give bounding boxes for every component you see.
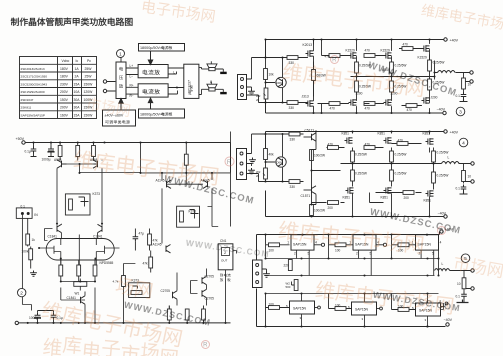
module SAP15N t3 xyxy=(412,234,442,256)
svg-text:R+: R+ xyxy=(130,84,134,88)
resistor 0.25/5W f xyxy=(428,77,445,96)
watermark lower-left xyxy=(41,300,183,348)
connector CN5 xyxy=(253,260,263,288)
svg-text:0.25/5W: 0.25/5W xyxy=(359,85,371,89)
resistor 4.7k column xyxy=(113,264,136,324)
svg-text:L+: L+ xyxy=(130,64,134,68)
wires bottom 4 xyxy=(312,193,430,217)
svg-text:NPD5565: NPD5565 xyxy=(100,261,114,265)
svg-text:100: 100 xyxy=(398,305,404,309)
svg-text:40k: 40k xyxy=(269,153,275,157)
module SAP15N b2 xyxy=(348,302,377,321)
svg-text:Pc: Pc xyxy=(87,59,91,63)
transistor D668 blk4 xyxy=(276,157,286,167)
terminal out3b xyxy=(470,80,473,83)
svg-text:C2705: C2705 xyxy=(161,289,171,293)
wire top rail +40V xyxy=(266,40,444,59)
resistor 470 blk4 c xyxy=(397,139,408,146)
svg-text:0.25/5W: 0.25/5W xyxy=(437,151,449,155)
resistor 330 lower xyxy=(287,101,298,110)
connector CN3 xyxy=(238,75,247,100)
svg-text:330: 330 xyxy=(290,138,296,142)
watermark fragment top-left xyxy=(142,0,215,23)
svg-text:10: 10 xyxy=(468,175,472,179)
resistor Rs3 xyxy=(93,259,97,282)
wire bottom rail 4 xyxy=(266,191,444,217)
resistor mid rail xyxy=(184,143,188,173)
svg-text:10k: 10k xyxy=(269,73,275,77)
resistor 200 blk4 b xyxy=(403,191,414,200)
svg-text:L: L xyxy=(442,262,444,266)
svg-text:L−: L− xyxy=(130,75,134,79)
box current-amp R 电流放大 xyxy=(138,84,168,97)
wire bottom rail 5 xyxy=(257,289,446,327)
input terminals xyxy=(103,80,106,83)
svg-text:OUT: OUT xyxy=(221,259,228,263)
resistor 47k c xyxy=(143,251,153,273)
box power board bottom xyxy=(139,109,185,118)
svg-text:2SD1047: 2SD1047 xyxy=(21,98,34,102)
svg-text:100/2W: 100/2W xyxy=(314,154,325,158)
wires bottom row outs xyxy=(302,303,444,327)
wires fet columns bottom xyxy=(318,96,430,114)
wire link block2 to upper blocks xyxy=(230,132,232,227)
node circle 1 xyxy=(117,50,125,58)
inductor L3 xyxy=(438,71,456,73)
resistor 470 g4 xyxy=(329,102,340,111)
resistor 100 t2 xyxy=(329,235,354,253)
svg-text:C1841: C1841 xyxy=(67,296,77,300)
ground out4 xyxy=(460,192,468,195)
mosfet K1529 c xyxy=(418,45,430,59)
transistor C2705 b xyxy=(202,275,214,285)
svg-text:200V: 200V xyxy=(60,90,69,94)
wires fet columns top xyxy=(314,40,435,97)
resistor 40k blk4 xyxy=(264,149,274,160)
svg-text:470: 470 xyxy=(330,107,336,111)
resistor 10 out4 xyxy=(462,171,472,182)
resistor 0.25/5W 4a xyxy=(351,151,367,164)
svg-text:C2705: C2705 xyxy=(205,297,215,301)
mosfet J313 xyxy=(302,95,314,107)
terminal -40V xyxy=(443,111,446,114)
svg-text:470: 470 xyxy=(325,55,331,59)
resistor 2k xyxy=(256,88,268,102)
svg-text:160V: 160V xyxy=(60,113,69,117)
resistor 220 xyxy=(284,260,293,271)
resistor 470 blk4 a xyxy=(328,143,339,150)
current source box K373 b xyxy=(177,206,200,227)
svg-text:470: 470 xyxy=(365,143,371,147)
arrow bottom supply xyxy=(148,98,152,109)
terminal +40V xyxy=(444,38,447,41)
terminal out5b xyxy=(471,287,474,290)
terminal out4b xyxy=(471,180,474,183)
resistor e1 xyxy=(167,306,171,323)
svg-text:150V: 150V xyxy=(60,98,69,102)
terminal b2 out xyxy=(377,307,383,310)
resistor 0.25/5W d xyxy=(355,77,371,97)
transistor C2705 c xyxy=(202,289,214,300)
svg-text:4: 4 xyxy=(315,241,317,245)
svg-text:J313: J313 xyxy=(302,95,309,99)
svg-text:200: 200 xyxy=(328,206,334,210)
svg-text:C2705: C2705 xyxy=(205,275,215,279)
resistor RL3 xyxy=(92,143,96,161)
wire bottom rail 2 xyxy=(17,322,231,324)
wires block diagram xyxy=(107,58,202,95)
svg-text:0 1: 0 1 xyxy=(21,204,26,208)
terminal out3a xyxy=(470,71,473,74)
transistor C5171 xyxy=(304,129,317,142)
box protector uPC1237 xyxy=(184,64,199,98)
svg-text:SAP15N: SAP15N xyxy=(293,242,307,246)
resistor 0.25/5W 4b xyxy=(390,151,407,164)
resistor 100 t3 xyxy=(392,235,416,253)
wire output 4 xyxy=(438,164,471,185)
capacitor 0.1u rail xyxy=(25,143,37,157)
speaker L xyxy=(202,61,224,71)
terminal +50V xyxy=(22,141,25,144)
svg-text:1k: 1k xyxy=(32,238,36,242)
watermark lower-right xyxy=(315,280,454,315)
ground out3 xyxy=(460,99,468,102)
watermark upper-right xyxy=(282,61,424,97)
svg-text:A968: A968 xyxy=(54,158,62,162)
svg-text:Ic: Ic xyxy=(76,59,79,63)
svg-text:K1529: K1529 xyxy=(381,49,390,53)
mosfet K851 d xyxy=(343,187,354,199)
watermark fragment top-right xyxy=(421,3,503,30)
resistor 470 g6 xyxy=(406,104,417,112)
svg-text:−40V: −40V xyxy=(438,212,447,216)
resistor 470 g3 xyxy=(402,43,413,51)
inductor L5 xyxy=(435,269,450,271)
resistor 470 blk4 b xyxy=(364,143,375,150)
svg-text:SAP15N: SAP15N xyxy=(293,307,307,311)
terminal out5a xyxy=(471,269,474,272)
title 制作晶体管靓声甲类功放电路图 xyxy=(11,18,133,26)
svg-text:47k: 47k xyxy=(143,262,149,266)
ground speaker L xyxy=(220,72,227,74)
pin2 terminal and ground b3 xyxy=(440,299,469,307)
mosfet K1529 a xyxy=(346,49,357,59)
svg-text:100: 100 xyxy=(335,304,341,308)
wires mid 4 xyxy=(312,132,430,205)
svg-text:K851: K851 xyxy=(424,199,432,203)
resistor RL1 xyxy=(58,143,62,161)
svg-text:K851: K851 xyxy=(378,132,386,136)
svg-text:100: 100 xyxy=(335,248,341,252)
node circle 5 xyxy=(461,254,470,263)
resistor 100k in xyxy=(22,247,33,269)
svg-text:IN: IN xyxy=(34,213,38,217)
wires mid buses 5 xyxy=(266,245,439,303)
capacitor 1000u rail xyxy=(42,143,55,162)
svg-text:L: L xyxy=(448,156,450,160)
svg-text:330: 330 xyxy=(289,61,295,65)
svg-text:470: 470 xyxy=(403,43,409,47)
svg-text:SAP15N: SAP15N xyxy=(418,242,432,246)
transistor C1841 a xyxy=(48,224,62,238)
node circle 2 xyxy=(18,288,26,296)
svg-text:100: 100 xyxy=(269,303,275,307)
svg-text:470: 470 xyxy=(365,49,371,53)
resistor 0.25/5W 4d xyxy=(351,164,367,187)
resistor 10 out xyxy=(462,78,472,89)
table of transistor types xyxy=(20,57,97,119)
wire output xyxy=(435,61,470,101)
resistor 0.25/5W a xyxy=(355,62,371,77)
svg-text:200: 200 xyxy=(404,196,410,200)
svg-text:0.1: 0.1 xyxy=(456,295,461,299)
svg-text:2A: 2A xyxy=(75,75,80,79)
svg-text:1000µ: 1000µ xyxy=(42,158,51,162)
mosfet K851 c xyxy=(423,132,434,145)
svg-text:470: 470 xyxy=(365,107,371,111)
svg-text:K851: K851 xyxy=(343,196,351,200)
capacitor 0.1 out xyxy=(456,92,467,99)
svg-text:2SC5171/2SA1930: 2SC5171/2SA1930 xyxy=(21,75,48,79)
module SAP15N t1 xyxy=(287,234,317,256)
svg-text:470: 470 xyxy=(407,108,413,112)
svg-text:0.25/5W: 0.25/5W xyxy=(395,172,407,176)
arrow classA supply xyxy=(119,99,123,111)
svg-text:2SK2013/2SJ313: 2SK2013/2SJ313 xyxy=(21,67,45,71)
svg-text:C1841: C1841 xyxy=(48,235,58,239)
inductor L4 xyxy=(442,162,460,164)
svg-text:0.25/5W: 0.25/5W xyxy=(395,153,407,157)
module SAP15N t2 xyxy=(349,234,379,256)
ground connector5 xyxy=(262,269,270,277)
svg-text:+40V: +40V xyxy=(450,131,459,135)
svg-text:2: 2 xyxy=(20,291,23,297)
mosfet J200 a xyxy=(349,92,363,106)
transistor A968 b xyxy=(90,158,98,168)
connector CN4 xyxy=(237,149,247,180)
svg-text:±40V~±60V: ±40V~±60V xyxy=(105,114,124,118)
resistor 0.25/5W b xyxy=(390,62,407,77)
svg-text:K2013: K2013 xyxy=(303,43,313,47)
wire c1841 to capsule xyxy=(61,233,97,239)
wires A1145 stage xyxy=(141,143,231,244)
resistor e3 xyxy=(202,306,206,323)
module SAP15N b3 xyxy=(412,303,441,322)
svg-text:30A: 30A xyxy=(74,106,81,110)
terminal out4a xyxy=(471,162,474,165)
svg-text:K373: K373 xyxy=(189,210,197,214)
watermark mid-left xyxy=(73,149,219,186)
svg-text:220: 220 xyxy=(284,264,290,268)
svg-text:C1571: C1571 xyxy=(301,194,311,198)
terminal t2 out xyxy=(376,243,387,246)
svg-text:1: 1 xyxy=(287,241,289,245)
svg-text:D668: D668 xyxy=(277,160,284,164)
watermark fragment left xyxy=(115,276,153,299)
transistor D668 xyxy=(276,77,286,87)
transistor C1841 b xyxy=(93,224,103,238)
current source box K373 c xyxy=(129,279,150,298)
wires mid bus 4 xyxy=(341,163,438,165)
svg-text:10: 10 xyxy=(457,282,461,286)
text to power amp board xyxy=(220,274,231,277)
svg-text:25W: 25W xyxy=(85,67,93,71)
terminal t1 out xyxy=(314,243,325,246)
ground input xyxy=(30,271,37,277)
resistor Rs1 xyxy=(59,259,63,282)
box current-amp L 电流放大 xyxy=(138,65,168,78)
wire bottom rail -40V xyxy=(266,97,443,114)
resistor 100/2W lower xyxy=(310,194,325,216)
potentiometer W2 500 xyxy=(286,280,299,291)
resistor 0.25/5W 4e xyxy=(390,164,407,187)
ground connector4 xyxy=(249,158,256,164)
wires left section 4 xyxy=(247,134,304,182)
module SAP15N b1 xyxy=(286,301,315,320)
svg-text:200V: 200V xyxy=(60,106,69,110)
svg-text:230V: 230V xyxy=(60,82,69,86)
potentiometer W1 xyxy=(61,279,95,296)
resistor 100/2W upper xyxy=(310,133,325,171)
terminal -40V blk4 xyxy=(444,215,447,218)
wires left section xyxy=(247,40,314,114)
wires mirror pair xyxy=(57,160,141,224)
speaker R xyxy=(202,82,224,92)
svg-text:R: R xyxy=(439,229,444,235)
svg-text:SAP15N: SAP15N xyxy=(355,308,369,312)
connector CN1 out xyxy=(218,239,233,270)
svg-text:+40V: +40V xyxy=(450,39,459,43)
svg-text:470: 470 xyxy=(398,139,404,143)
svg-text:L: L xyxy=(173,70,175,74)
svg-text:+50V: +50V xyxy=(16,137,25,141)
svg-text:330: 330 xyxy=(290,185,296,189)
svg-text:100k: 100k xyxy=(22,250,29,254)
svg-text:K373: K373 xyxy=(93,192,101,196)
svg-text:0.1: 0.1 xyxy=(456,187,461,191)
mosfet K851 e xyxy=(381,187,392,199)
svg-text:J200: J200 xyxy=(431,96,438,100)
svg-text:2: 2 xyxy=(356,252,358,256)
svg-text:180V: 180V xyxy=(60,75,69,79)
mosfet J200 b xyxy=(384,92,398,106)
input connector IN xyxy=(16,204,38,310)
svg-text:Vcbo: Vcbo xyxy=(62,59,70,63)
terminal b1 out xyxy=(315,306,321,309)
resistor 470 g1 xyxy=(325,54,341,59)
svg-text:18000µ/50V×8: 18000µ/50V×8 xyxy=(140,113,164,117)
wire CN1 drop xyxy=(226,251,237,323)
wire output 5 xyxy=(439,271,471,303)
svg-text:180V: 180V xyxy=(60,67,69,71)
svg-text:W1: W1 xyxy=(75,292,80,296)
svg-text:K1529: K1529 xyxy=(346,49,355,53)
svg-text:100/2W: 100/2W xyxy=(314,209,325,213)
svg-text:−40V: −40V xyxy=(444,318,453,322)
svg-text:0.1µ: 0.1µ xyxy=(25,150,31,154)
node circle 4 xyxy=(459,138,468,147)
svg-text:120W: 120W xyxy=(84,90,94,94)
terminal -40V blk5 xyxy=(446,323,449,326)
resistor 470 g2 xyxy=(364,49,375,58)
svg-text:K851: K851 xyxy=(381,196,389,200)
resistor e2 xyxy=(185,309,189,323)
svg-text:R−: R− xyxy=(130,94,134,98)
table text xyxy=(21,59,94,117)
transistor A1145 b xyxy=(201,179,210,189)
wires lower mid 2 xyxy=(45,224,120,323)
capacitor 1000u bottom xyxy=(29,311,41,323)
svg-text:25W: 25W xyxy=(85,75,93,79)
resistor 330 blk4 lower xyxy=(289,180,300,189)
resistor 330 upper xyxy=(287,56,298,65)
capacitor 0.1 out4 xyxy=(456,185,467,192)
box power board top 18000u/50Vx8 xyxy=(139,44,185,52)
svg-text:47µ: 47µ xyxy=(139,232,145,236)
svg-text:0.25/5W: 0.25/5W xyxy=(437,174,449,178)
resistor feedback 47k mid xyxy=(148,229,158,251)
svg-text:1: 1 xyxy=(119,51,122,56)
svg-text:C5171: C5171 xyxy=(305,129,315,133)
mosfet K851 f xyxy=(424,190,434,202)
mosfet K851 b xyxy=(378,132,392,144)
svg-text:D668: D668 xyxy=(277,81,284,85)
transistor C1571 xyxy=(301,186,317,198)
svg-text:1000µ: 1000µ xyxy=(29,316,38,320)
svg-text:K1529: K1529 xyxy=(418,56,427,60)
svg-text:10A: 10A xyxy=(74,90,81,94)
svg-text:4: 4 xyxy=(462,141,465,147)
svg-text:330: 330 xyxy=(289,106,295,110)
svg-text:1A: 1A xyxy=(75,67,80,71)
svg-text:0.25/5W: 0.25/5W xyxy=(395,64,407,68)
svg-text:30A: 30A xyxy=(74,98,81,102)
svg-text:2SK811: 2SK811 xyxy=(21,106,32,110)
svg-text:SAP15N: SAP15N xyxy=(355,242,369,246)
ground speaker R xyxy=(220,92,227,94)
svg-text:470: 470 xyxy=(328,143,334,147)
svg-text:K851: K851 xyxy=(342,132,350,136)
svg-text:15A: 15A xyxy=(74,113,81,117)
svg-text:−40V: −40V xyxy=(437,108,446,112)
capacitor 0.1 out5 xyxy=(456,292,467,299)
wire top rail 4 xyxy=(266,132,444,151)
resistor Rs2 xyxy=(77,261,81,282)
transistor A968 a xyxy=(54,158,67,168)
svg-text:R: R xyxy=(203,343,208,349)
svg-text:500: 500 xyxy=(286,285,291,289)
signal labels xyxy=(130,64,179,98)
mosfet J200 c xyxy=(422,96,438,104)
transistor A1145 c xyxy=(153,243,171,253)
box adjustable class-A supply xyxy=(103,110,136,126)
svg-text:150W: 150W xyxy=(84,113,94,117)
resistor 470 g5 xyxy=(364,102,375,111)
resistor 0.25/5W e xyxy=(390,77,407,97)
resistor 100 t1 xyxy=(266,235,290,253)
dual jfet NPD5565 xyxy=(38,235,119,266)
watermark right-edge xyxy=(453,254,503,278)
transistor A1145 a xyxy=(156,179,172,189)
node circle 3 xyxy=(456,107,465,116)
svg-text:A1145: A1145 xyxy=(153,243,162,247)
svg-text:2SK1529/2SJ200: 2SK1529/2SJ200 xyxy=(21,90,45,94)
arrow top supply xyxy=(148,51,152,65)
resistor 100 b2 xyxy=(329,294,352,311)
resistor 10 out5 xyxy=(457,278,466,289)
resistor 10k xyxy=(264,69,274,80)
svg-text:150W: 150W xyxy=(84,82,94,86)
